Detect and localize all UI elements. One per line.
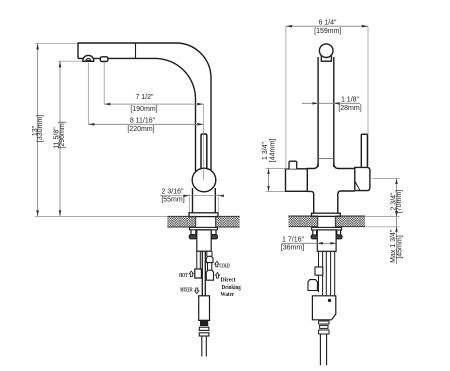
svg-text:[296mm]: [296mm] [59, 121, 66, 148]
aerator small rect [100, 57, 108, 62]
handle lever (right view) [361, 134, 367, 167]
dimension 1 1/8" [28mm] [302, 102, 360, 105]
ball joint circle [192, 168, 216, 192]
filter block [312, 296, 335, 320]
dimension 2 3/4" [70mm] [372, 179, 399, 217]
svg-text:1 3/4": 1 3/4" [262, 141, 269, 160]
Direct Drinking Water label + arrow [215, 273, 219, 279]
svg-text:2 3/16": 2 3/16" [162, 189, 184, 196]
svg-text:[28mm]: [28mm] [338, 105, 361, 112]
spout inner curve [136, 58, 196, 171]
extension line from dome down (8 11/16) [87, 63, 89, 124]
dimension Max 1 3/4" [45mm] [365, 211, 399, 264]
faucet body below ball [193, 188, 216, 213]
mixer tube [202, 251, 205, 295]
dimension line 7 1/2" [104, 103, 203, 106]
tubes below block (right view) [319, 251, 335, 295]
COLD label + arrow [215, 261, 219, 267]
hose ring 2 [199, 333, 209, 336]
svg-text:MIXER: MIXER [180, 287, 193, 294]
svg-text:[220mm]: [220mm] [127, 126, 154, 133]
bracket under circle [321, 54, 331, 61]
svg-text:Drinking: Drinking [222, 284, 242, 291]
body bottom edges [307, 191, 313, 213]
countertop (left view) [167, 216, 239, 227]
knob on left box [289, 161, 297, 169]
hose ring 1 [199, 327, 209, 330]
aerator dome [83, 55, 94, 61]
washer bar under counter (right view) [312, 227, 342, 230]
outlet thin tube [320, 334, 326, 365]
base plate (left view) [189, 213, 218, 217]
head divider line [135, 43, 137, 58]
svg-text:Water: Water [221, 291, 235, 298]
svg-text:[36mm]: [36mm] [281, 245, 304, 252]
countertop (right view) [289, 216, 366, 227]
pull-out hose wide tube [199, 296, 210, 321]
svg-text:HOT: HOT [179, 272, 188, 279]
spout column [318, 57, 334, 167]
filter dot [328, 299, 331, 302]
dimension 6 1/4" [159mm] [286, 25, 368, 168]
right mounting bolt [210, 230, 217, 239]
dimension 1 7/16" [36mm] [282, 242, 337, 245]
dimension 2 3/16 [55mm] [160, 194, 224, 212]
hose dark collar [201, 320, 208, 325]
spout top circle [319, 44, 333, 58]
spout outer curve [136, 43, 212, 170]
dimension 1 3/4" [44mm] left of right view [266, 169, 288, 192]
svg-text:[330mm]: [330mm] [37, 115, 44, 142]
handle base [355, 167, 370, 190]
hose thin tube [202, 336, 207, 357]
svg-text:COLD: COLD [220, 262, 230, 269]
right bolt (right view) [335, 230, 342, 239]
svg-text:[70mm]: [70mm] [396, 190, 403, 213]
washer bar under counter (left view) [190, 227, 218, 229]
left box [286, 169, 308, 192]
column joint line [318, 158, 334, 160]
left bolt (right view) [311, 230, 318, 239]
hot tube [197, 251, 201, 269]
central shank block (left view) [197, 230, 211, 251]
extension line countertop left [35, 215, 167, 217]
svg-text:7 1/2": 7 1/2" [135, 94, 154, 101]
svg-text:[44mm]: [44mm] [270, 139, 277, 162]
dimension line 13" [36, 43, 39, 216]
handle base diagonal [355, 181, 360, 191]
lever handle (left view) [201, 134, 207, 171]
connector rings below filter [319, 321, 329, 324]
small fitting on tube [315, 267, 323, 275]
Direct fitting [206, 270, 213, 280]
extension line top (13") [35, 42, 77, 44]
svg-text:Direct: Direct [221, 277, 237, 284]
base plate (right view) [312, 213, 341, 216]
dimension line 8 11/16" [88, 123, 203, 126]
extension line aerator (11 5/8") [58, 60, 82, 62]
central block (right view) [317, 230, 336, 251]
svg-text:1 7/16": 1 7/16" [282, 237, 304, 244]
svg-text:8 11/16": 8 11/16" [130, 117, 156, 124]
left connector [308, 280, 317, 291]
head bottom edge [78, 57, 136, 59]
dimension line 11 5/8" [59, 61, 62, 216]
svg-text:[55mm]: [55mm] [161, 196, 184, 203]
body cross (right view) [307, 163, 318, 169]
left mounting bolt [189, 230, 196, 239]
center extension line in tube [203, 104, 205, 180]
svg-text:[159mm]: [159mm] [314, 28, 341, 35]
spout head rectangle [78, 43, 136, 58]
svg-text:[45mm]: [45mm] [396, 235, 403, 258]
svg-text:[190mm]: [190mm] [130, 106, 157, 113]
HOT fitting [195, 269, 202, 278]
cold tube [207, 251, 212, 256]
COLD fitting [206, 256, 213, 262]
svg-text:6 1/4": 6 1/4" [318, 19, 337, 26]
svg-text:1 1/8": 1 1/8" [341, 96, 360, 103]
tube between fittings [208, 263, 212, 271]
extension line from small rect down (7 1/2) [103, 63, 105, 104]
